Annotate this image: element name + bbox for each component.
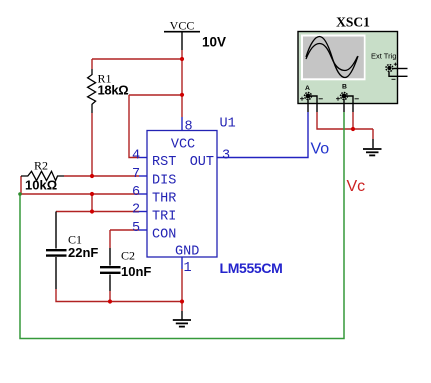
- svg-text:18kΩ: 18kΩ: [98, 83, 129, 98]
- svg-text:THR: THR: [152, 192, 176, 207]
- svg-text:GND: GND: [175, 245, 199, 260]
- svg-text:RST: RST: [152, 155, 176, 170]
- svg-text:2: 2: [132, 203, 140, 218]
- svg-text:3: 3: [222, 149, 230, 164]
- svg-text:C2: C2: [121, 249, 135, 263]
- svg-text:B: B: [342, 84, 347, 91]
- svg-text:4: 4: [132, 149, 140, 164]
- svg-text:1: 1: [184, 261, 192, 276]
- svg-text:Vo: Vo: [311, 141, 330, 158]
- svg-text:VCC: VCC: [170, 19, 195, 33]
- svg-text:OUT: OUT: [190, 155, 214, 170]
- svg-text:VCC: VCC: [171, 138, 195, 153]
- svg-text:DIS: DIS: [152, 174, 176, 189]
- svg-text:5: 5: [132, 221, 140, 236]
- svg-text:CON: CON: [152, 228, 176, 243]
- svg-text:10V: 10V: [202, 35, 226, 50]
- svg-text:XSC1: XSC1: [336, 15, 370, 30]
- svg-text:TRI: TRI: [152, 210, 176, 225]
- svg-text:10nF: 10nF: [121, 264, 151, 279]
- svg-text:10kΩ: 10kΩ: [25, 178, 57, 193]
- svg-text:Vc: Vc: [347, 178, 366, 195]
- svg-text:A: A: [305, 85, 310, 92]
- svg-text:R2: R2: [34, 159, 48, 173]
- svg-text:8: 8: [185, 120, 193, 135]
- svg-text:U1: U1: [220, 117, 236, 132]
- svg-text:Ext Trig: Ext Trig: [371, 52, 396, 61]
- svg-text:7: 7: [132, 167, 140, 182]
- svg-text:22nF: 22nF: [68, 245, 98, 260]
- svg-text:LM555CM: LM555CM: [220, 260, 283, 276]
- svg-text:6: 6: [132, 185, 140, 200]
